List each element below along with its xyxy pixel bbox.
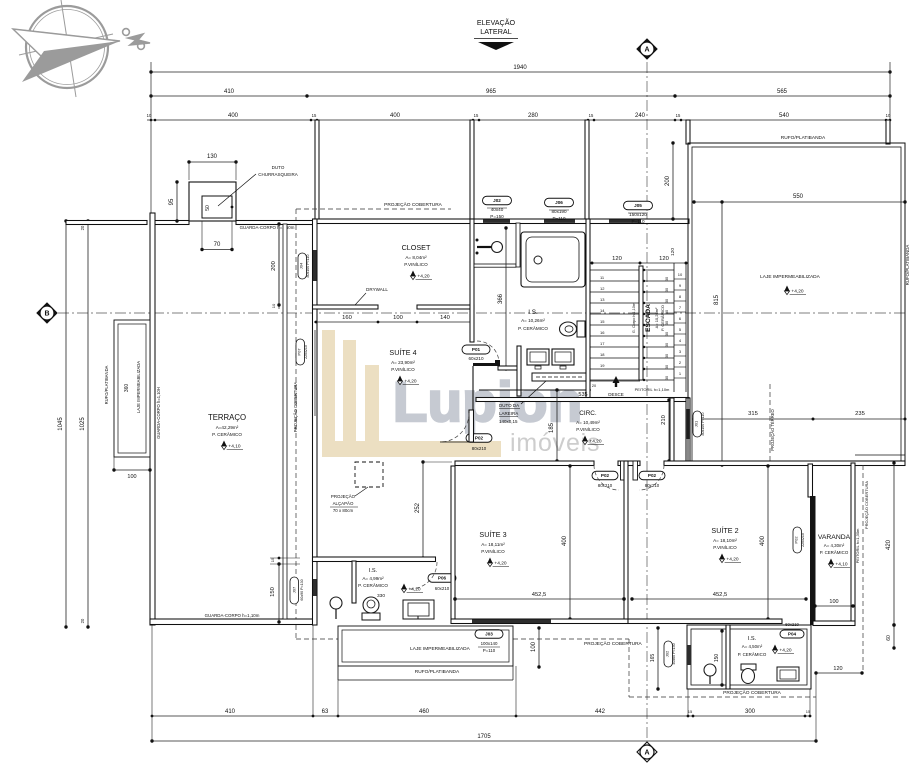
svg-text:+4,10: +4,10 — [835, 562, 847, 568]
bottom dimension line 410 63 460 442 300 — [152, 715, 810, 717]
terrace top guard wall mid segment — [155, 221, 189, 225]
door P01 swing arc — [477, 341, 499, 363]
projecao terreo dashed — [769, 384, 771, 463]
svg-text:330: 330 — [377, 593, 385, 599]
svg-text:A: A — [644, 46, 649, 53]
dimension 130 churrasqueira — [189, 161, 236, 163]
svg-text:P. CERÂMICO: P. CERÂMICO — [660, 305, 665, 331]
svg-text:80x100 P=110: 80x100 P=110 — [701, 412, 705, 435]
IS bottom shower circle — [704, 664, 716, 676]
door P07 label west wall — [296, 339, 305, 365]
svg-text:100: 100 — [829, 599, 838, 605]
svg-text:A= 23,90m²: A= 23,90m² — [391, 360, 415, 365]
dimension 315 / 235 — [694, 418, 905, 420]
vanity IS4 — [403, 600, 434, 619]
suite3 west wall — [451, 466, 455, 619]
dimension 366 bathroom — [505, 228, 507, 369]
svg-text:30: 30 — [665, 354, 669, 358]
svg-text:PEITORIL h=1,30m: PEITORIL h=1,30m — [855, 528, 860, 563]
svg-text:150: 150 — [270, 587, 276, 597]
svg-text:315: 315 — [748, 411, 758, 417]
svg-text:GUARDA-CORPO h=1,10m: GUARDA-CORPO h=1,10m — [205, 613, 260, 618]
svg-text:130: 130 — [207, 154, 218, 160]
svg-text:SUÍTE 2: SUÍTE 2 — [711, 526, 738, 535]
extension line right x890 — [889, 62, 891, 120]
stair and bath bottom wall — [476, 398, 689, 402]
planter box inner — [118, 324, 146, 453]
svg-text:P. CERÂMICO: P. CERÂMICO — [738, 652, 767, 657]
extension line left x151 — [150, 62, 152, 220]
dimension 150 — [721, 631, 723, 685]
svg-text:140: 140 — [440, 315, 450, 321]
dimension 1025 left — [87, 221, 89, 627]
svg-text:J02: J02 — [493, 198, 501, 203]
terrace bottom guard wall — [150, 619, 313, 625]
pedestal sink circle IS4 — [330, 597, 342, 609]
svg-text:80x210: 80x210 — [645, 483, 660, 488]
axis B marker — [37, 303, 57, 323]
door P01 leaf — [473, 363, 498, 366]
svg-text:P04: P04 — [788, 632, 797, 637]
svg-text:140x0,15: 140x0,15 — [499, 419, 518, 424]
svg-text:P. CERÂMICO: P. CERÂMICO — [212, 431, 242, 437]
bathroom bottom wall — [479, 389, 591, 391]
svg-text:120: 120 — [833, 666, 842, 672]
svg-text:J06: J06 — [555, 200, 563, 205]
svg-text:95: 95 — [169, 198, 175, 205]
planter box outer — [114, 320, 150, 457]
terrace top guard wall left segment — [66, 221, 147, 225]
stair divider wall — [639, 266, 643, 380]
svg-text:P=110: P=110 — [631, 219, 645, 224]
svg-text:PROJEÇÃO COBERTURA: PROJEÇÃO COBERTURA — [293, 382, 298, 433]
svg-text:P.VINÍLICO: P.VINÍLICO — [576, 426, 600, 432]
dimension line 410 / 965 / 565 — [151, 95, 890, 97]
svg-text:J04: J04 — [299, 262, 304, 269]
svg-text:DUTO: DUTO — [272, 165, 285, 170]
window J05 opening — [609, 220, 641, 223]
svg-text:TERRAÇO: TERRAÇO — [208, 413, 246, 422]
svg-text:20: 20 — [592, 384, 596, 388]
dimension 400 suite3 — [569, 466, 571, 619]
door P02 right arc — [639, 465, 664, 490]
svg-text:30: 30 — [665, 321, 669, 325]
svg-text:ALÇAPÃO: ALÇAPÃO — [333, 501, 354, 506]
svg-text:+4,10: +4,10 — [228, 444, 240, 450]
svg-text:+4,20: +4,20 — [417, 274, 429, 280]
svg-text:ELEVAÇÃO: ELEVAÇÃO — [477, 18, 516, 27]
axis B horizontal dash-dot line — [58, 312, 905, 314]
svg-text:+4,20: +4,20 — [726, 557, 738, 563]
svg-text:A= 4,99m²: A= 4,99m² — [362, 576, 384, 581]
svg-text:16: 16 — [600, 330, 605, 335]
svg-text:15: 15 — [312, 113, 317, 118]
svg-text:+4,20: +4,20 — [404, 379, 416, 385]
dimension 70 churrasqueira duct — [202, 249, 232, 251]
laje inner wall rectangle — [692, 147, 901, 461]
svg-text:LAJE IMPERMEABILIZADA: LAJE IMPERMEABILIZADA — [410, 646, 471, 652]
svg-text:30: 30 — [665, 332, 669, 336]
door P02 left capsule — [592, 471, 618, 480]
svg-text:I.S.: I.S. — [748, 636, 757, 642]
bathtub drain — [534, 256, 542, 264]
wall stub above closet wall — [315, 120, 319, 220]
dimension 165 — [657, 628, 659, 689]
varanda top line — [855, 454, 905, 456]
svg-text:DRYWALL: DRYWALL — [366, 287, 388, 292]
svg-text:565: 565 — [777, 89, 788, 95]
dimension 160 100 140 closet — [314, 321, 472, 323]
svg-text:815: 815 — [714, 294, 720, 305]
window label J01 rotated — [693, 411, 702, 437]
door P02 left arc — [594, 465, 619, 490]
dimension 420 varanda — [893, 463, 895, 625]
shower stall east wall — [516, 223, 520, 267]
dimension 815 laje — [721, 202, 723, 465]
stair bottom landing line — [590, 380, 640, 382]
svg-text:400: 400 — [760, 535, 766, 546]
svg-text:30: 30 — [665, 376, 669, 380]
suite4 entry door arc — [440, 413, 469, 442]
svg-text:PROJEÇÃO COBERTURA: PROJEÇÃO COBERTURA — [864, 481, 869, 529]
projecao cobertura varanda dashed — [862, 465, 864, 673]
svg-text:1705: 1705 — [477, 734, 491, 740]
svg-text:420: 420 — [886, 539, 892, 550]
extension stub right laje corner — [886, 120, 890, 144]
dimension 200 terrace east — [278, 224, 280, 305]
projecao cobertura dashed bottom horizontal — [296, 638, 338, 640]
svg-text:PROJEÇÃO: PROJEÇÃO — [331, 494, 356, 499]
svg-text:P06: P06 — [438, 576, 447, 581]
svg-text:160: 160 — [342, 315, 352, 321]
window label J03 — [475, 630, 503, 639]
svg-text:+4,20: +4,20 — [494, 561, 506, 567]
stair dimension 120 120 — [592, 262, 686, 264]
door P02 varanda rotated label — [793, 527, 802, 553]
hall east wall with window J01 — [686, 398, 690, 465]
svg-text:LAJE IMPERMEABILIZADA: LAJE IMPERMEABILIZADA — [136, 361, 141, 413]
terrace left wall — [150, 213, 155, 625]
svg-text:I.S.: I.S. — [528, 309, 538, 316]
door opening jamb stubs — [621, 461, 626, 480]
bottom extension lines — [151, 625, 153, 741]
svg-text:18: 18 — [600, 352, 605, 357]
svg-text:60x210: 60x210 — [435, 586, 450, 591]
bottom slab inner rect — [342, 630, 509, 662]
dimension 452,5 suite3 — [455, 598, 624, 600]
axis A marker bottom — [637, 742, 657, 762]
svg-text:400: 400 — [562, 535, 568, 546]
laje outer wall rectangle — [688, 143, 905, 465]
svg-text:PROJEÇÃO COBERTURA: PROJEÇÃO COBERTURA — [584, 640, 643, 647]
svg-text:P. CERÂMICO: P. CERÂMICO — [358, 582, 388, 588]
svg-text:80x100 P=110: 80x100 P=110 — [306, 254, 310, 277]
svg-text:DUTO DA: DUTO DA — [499, 403, 519, 408]
svg-text:CIRC.: CIRC. — [579, 410, 597, 417]
svg-text:LATERAL: LATERAL — [480, 27, 511, 36]
dimension 185 circ — [556, 390, 558, 461]
svg-text:10: 10 — [271, 303, 276, 308]
svg-text:15: 15 — [474, 113, 479, 118]
svg-text:120: 120 — [670, 248, 676, 256]
suite2 south wall — [628, 619, 782, 624]
bathtub inner — [526, 237, 579, 282]
svg-text:P=150: P=150 — [490, 214, 504, 219]
svg-text:30: 30 — [665, 277, 669, 281]
svg-text:P01: P01 — [472, 347, 481, 352]
svg-text:100: 100 — [393, 315, 403, 321]
wall stub above laje wall — [686, 120, 690, 144]
svg-text:452,5: 452,5 — [713, 592, 728, 598]
window on west wall upper — [313, 250, 317, 281]
bottom dimension 1705 — [152, 740, 816, 742]
svg-text:CLOSET: CLOSET — [402, 243, 431, 252]
house west exterior wall — [313, 219, 318, 625]
svg-text:LAREIRA: LAREIRA — [499, 411, 518, 416]
sink IS bottom — [777, 667, 799, 681]
bottom slab outer rect — [338, 626, 513, 666]
svg-text:965: 965 — [486, 89, 497, 95]
svg-text:A= 10,26m²: A= 10,26m² — [654, 307, 659, 328]
shower seat bar — [477, 246, 491, 248]
svg-text:210: 210 — [661, 415, 667, 425]
dimension 150 terrace bottom east — [278, 564, 280, 622]
bathtub outer — [521, 232, 585, 287]
svg-text:J07: J07 — [292, 586, 297, 593]
svg-text:63: 63 — [322, 709, 329, 715]
svg-text:400: 400 — [228, 113, 239, 119]
svg-text:60: 60 — [886, 635, 892, 641]
svg-text:220x210: 220x210 — [304, 345, 308, 359]
svg-text:J01: J01 — [694, 420, 699, 427]
svg-text:SUÍTE 4: SUÍTE 4 — [389, 348, 416, 357]
svg-text:SUÍTE 3: SUÍTE 3 — [479, 530, 506, 539]
svg-text:13: 13 — [600, 297, 605, 302]
dimension line 400 / 400 / 280 / 240 / 540 with 15s — [147, 119, 890, 121]
north flag symbol — [123, 29, 150, 50]
svg-text:452,5: 452,5 — [532, 592, 547, 598]
stair left flight steps — [590, 269, 640, 271]
svg-text:G. Corpo h.1,10m: G. Corpo h.1,10m — [632, 303, 636, 333]
svg-text:RUFO/PLATIBANDA: RUFO/PLATIBANDA — [781, 135, 826, 141]
closet east wall / shower wall — [470, 219, 474, 342]
bathroom east wall — [586, 219, 590, 398]
dimension 1940 overall width — [151, 71, 890, 73]
svg-text:+4,20: +4,20 — [791, 289, 803, 295]
stair numbers column border — [673, 263, 675, 392]
svg-text:A= 18,10m²: A= 18,10m² — [713, 538, 737, 543]
window J03 opening — [472, 620, 551, 624]
svg-text:A= 10,49m²: A= 10,49m² — [576, 420, 600, 425]
terrace top guard wall right segment — [236, 221, 313, 225]
svg-text:200: 200 — [271, 261, 277, 271]
svg-text:+4,20: +4,20 — [408, 587, 420, 593]
svg-text:RUFO/PLATIBANDA: RUFO/PLATIBANDA — [415, 669, 460, 675]
IS bottom outer walls — [687, 625, 811, 689]
fireplace duct shelf — [532, 373, 588, 381]
dimension 120 varanda — [816, 672, 862, 674]
svg-text:RUFO/PLATIBANDA: RUFO/PLATIBANDA — [905, 245, 910, 286]
shower drain circle — [492, 242, 503, 253]
svg-text:A= 10,26m²: A= 10,26m² — [521, 318, 545, 323]
dimension 210 hall — [668, 400, 670, 461]
churrasqueira outer box — [189, 182, 236, 221]
suite3 south wall — [451, 619, 628, 624]
twin sink left — [527, 349, 549, 365]
svg-text:DESCE: DESCE — [608, 392, 624, 397]
projecao cobertura dashed left vertical — [295, 209, 297, 639]
window label IS bottom rotated — [664, 641, 673, 667]
svg-text:1045: 1045 — [58, 417, 64, 431]
svg-text:PEITORIL h=1,10m: PEITORIL h=1,10m — [635, 387, 670, 392]
svg-text:240: 240 — [635, 113, 646, 119]
svg-text:150: 150 — [714, 654, 720, 663]
toilet IS bottom — [741, 664, 756, 670]
svg-text:P. CERÂMICO: P. CERÂMICO — [820, 550, 849, 555]
svg-text:P.VINÍLICO: P.VINÍLICO — [481, 548, 505, 554]
svg-text:120: 120 — [612, 256, 622, 262]
bathroom lower-left wall horizontal — [498, 366, 520, 370]
dimension 1045 left — [65, 221, 67, 627]
desce arrow — [613, 376, 620, 383]
dimension 400 suite2 — [767, 466, 769, 619]
watermark Lupion logo icon (beige nested bars) — [322, 330, 501, 457]
svg-text:P.VINÍLICO: P.VINÍLICO — [713, 544, 737, 550]
shower stall bottom wall — [474, 264, 516, 267]
suite3 east wall — [624, 461, 628, 623]
dimension 100 planter — [114, 469, 150, 471]
IS4 niche wall — [352, 561, 356, 603]
svg-text:P=110: P=110 — [552, 216, 566, 221]
svg-text:30: 30 — [665, 343, 669, 347]
west wall sliding door thin line — [314, 330, 316, 416]
svg-text:A= 4,30m²: A= 4,30m² — [824, 543, 845, 548]
svg-text:30: 30 — [665, 310, 669, 314]
svg-text:P02: P02 — [601, 473, 610, 478]
suite4 IS top wall — [313, 557, 436, 562]
svg-text:14: 14 — [600, 308, 605, 313]
terrace east parapet line — [283, 224, 287, 619]
svg-text:P02: P02 — [794, 536, 799, 544]
twin sink right — [552, 349, 574, 365]
svg-text:366: 366 — [498, 293, 504, 304]
svg-text:A= 18,11m²: A= 18,11m² — [481, 542, 505, 547]
svg-text:imóveis: imóveis — [510, 429, 600, 457]
svg-text:RUFO/PLATIBANDA: RUFO/PLATIBANDA — [104, 365, 109, 404]
svg-text:20: 20 — [80, 225, 85, 230]
main interior wall band south of circ — [455, 461, 594, 466]
varanda east wall — [851, 463, 855, 625]
wall stub above shower wall — [470, 120, 474, 220]
svg-text:100: 100 — [531, 641, 537, 652]
window label J02 — [483, 196, 512, 205]
projecao cobertura dashed bottom right segment — [628, 639, 630, 697]
svg-text:540: 540 — [779, 113, 790, 119]
dimension 252 suite4 — [422, 462, 424, 558]
svg-text:I.S.: I.S. — [369, 568, 378, 574]
window label J05 — [624, 201, 653, 210]
svg-text:550: 550 — [793, 194, 804, 200]
svg-text:P=110: P=110 — [483, 648, 496, 653]
svg-text:442: 442 — [595, 709, 606, 715]
svg-text:100: 100 — [127, 474, 136, 480]
svg-text:235: 235 — [855, 411, 865, 417]
elevation view arrow — [478, 42, 514, 50]
svg-text:+4,20: +4,20 — [589, 439, 601, 445]
level marker IS-4 — [401, 584, 406, 591]
toilet main bathroom — [577, 321, 585, 337]
svg-text:410: 410 — [224, 89, 235, 95]
closet drywall partition right — [417, 305, 474, 309]
alcapao dashed square — [355, 462, 383, 487]
svg-text:280: 280 — [528, 113, 539, 119]
svg-text:30: 30 — [665, 288, 669, 292]
suite4 door P02 entry capsule — [466, 434, 492, 443]
varanda south wall — [813, 621, 855, 626]
svg-text:50: 50 — [205, 205, 211, 211]
svg-text:15: 15 — [676, 113, 681, 118]
dimension 60 varanda — [893, 625, 895, 648]
svg-text:15: 15 — [600, 319, 605, 324]
svg-text:PROJEÇÃO COBERTURA: PROJEÇÃO COBERTURA — [384, 201, 443, 208]
svg-text:A=42,29m²: A=42,29m² — [216, 425, 239, 430]
projecao cobertura dashed top-left — [296, 208, 451, 210]
svg-text:B: B — [44, 310, 49, 317]
svg-text:P02: P02 — [648, 473, 657, 478]
svg-text:80x210: 80x210 — [472, 446, 487, 451]
dimension 100 south — [538, 628, 540, 667]
svg-text:30: 30 — [665, 365, 669, 369]
churrasqueira inner duct box — [202, 196, 232, 218]
stair right flight steps — [643, 269, 674, 271]
svg-text:J03: J03 — [485, 632, 493, 637]
svg-text:15: 15 — [589, 113, 594, 118]
svg-text:120: 120 — [659, 256, 669, 262]
suite2 east wall upper — [808, 464, 813, 497]
svg-text:17: 17 — [600, 341, 605, 346]
svg-text:185: 185 — [549, 422, 555, 433]
svg-text:1025: 1025 — [80, 417, 86, 431]
varanda west wall dark — [810, 496, 816, 625]
svg-text:J02: J02 — [665, 650, 670, 657]
door P01 capsule — [462, 345, 490, 354]
window label terrace bottom east capsule — [290, 577, 299, 604]
svg-text:19: 19 — [600, 363, 605, 368]
svg-text:A= 8,04m²: A= 8,04m² — [405, 255, 427, 260]
dimension 550 laje — [694, 201, 905, 203]
svg-text:P.VINÍLICO: P.VINÍLICO — [404, 261, 428, 267]
svg-text:A: A — [644, 749, 649, 756]
svg-text:PROJEÇÃO TÉRREO: PROJEÇÃO TÉRREO — [770, 408, 775, 450]
svg-text:ESCADA: ESCADA — [645, 304, 652, 332]
svg-text:300: 300 — [745, 709, 756, 715]
svg-text:CHURRASQUEIRA: CHURRASQUEIRA — [258, 172, 298, 177]
svg-text:400: 400 — [390, 113, 401, 119]
alcapao leader — [355, 487, 368, 496]
svg-text:60x90 P=130: 60x90 P=130 — [300, 579, 304, 600]
svg-text:20: 20 — [80, 618, 85, 623]
svg-text:60x210: 60x210 — [468, 356, 484, 361]
svg-text:40x60 P=150: 40x60 P=150 — [672, 643, 676, 664]
window J02 opening — [483, 220, 510, 223]
bathroom lower-left wall vertical — [517, 346, 521, 396]
compass rose — [13, 0, 120, 97]
axis A vertical dash-dot line — [646, 62, 648, 739]
svg-text:1940: 1940 — [513, 65, 527, 71]
svg-text:10: 10 — [678, 272, 683, 277]
svg-text:P02: P02 — [475, 436, 484, 441]
dimension 100 varanda — [815, 605, 853, 607]
